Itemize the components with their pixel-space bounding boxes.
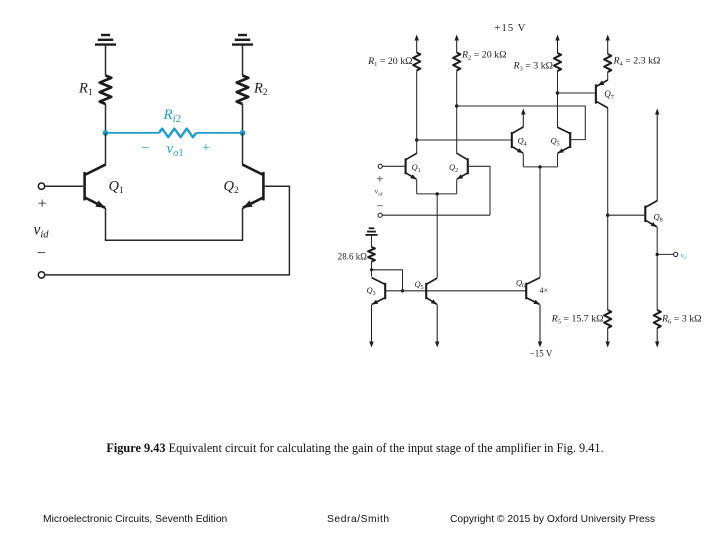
tail wire down to Q5b collector: [436, 194, 438, 278]
wire R3 down to Q5 collector: [557, 71, 559, 128]
Q6 collector diagonal: [526, 278, 540, 285]
svg-text:+15 V: +15 V: [495, 23, 527, 34]
Q4 collector arrow to +15V: [522, 114, 524, 128]
wire Q4 emitter to tail node: [523, 166, 540, 168]
wire 28.6k to Q3 collector: [371, 262, 373, 277]
node: Q7-collector/Q8-base junction dot: [606, 214, 609, 217]
Q5b emitter diagonal with arrow: [426, 298, 437, 305]
svg-text:Q8: Q8: [654, 212, 663, 224]
transistor Q5 base bar: [569, 132, 571, 148]
Q8 collector arrow to +15V: [656, 114, 658, 201]
node: R3/Q7-base junction dot: [556, 91, 559, 94]
svg-text:vid: vid: [375, 187, 383, 198]
wire riser to minus terminal (right): [382, 214, 490, 216]
wire R1 to node A: [105, 104, 107, 133]
svg-text:Q5: Q5: [415, 279, 424, 291]
resistor R4 = 2.3 k: [604, 54, 611, 72]
svg-text:R6 = 3 kΩ: R6 = 3 kΩ: [661, 314, 702, 326]
supply arrow above R1 (right): [416, 40, 418, 53]
riser wire down to bottom return: [288, 186, 290, 275]
Q1 collector wire: [105, 133, 107, 164]
ground (left figure, above R1): [101, 34, 110, 36]
wire Q5 emitter to tail node: [540, 166, 558, 168]
Q1 emitter wire down: [105, 208, 107, 240]
wire Q2 base to riser: [469, 165, 490, 167]
transistor Q5b (stage-1 tail source) base bar: [425, 283, 427, 299]
Q3 emitter diagonal with arrow: [372, 298, 385, 305]
svg-text:R3 = 3 kΩ: R3 = 3 kΩ: [513, 61, 554, 73]
Q5 emitter diagonal with arrow: [558, 147, 571, 154]
svg-text:R2 = 20 kΩ: R2 = 20 kΩ: [461, 50, 506, 62]
wire joining Q1 and Q2 emitters: [105, 239, 243, 241]
Q1 collector diagonal: [85, 164, 106, 175]
Q1 (right) collector diagonal: [406, 153, 417, 160]
Q7 emitter diagonal with inward arrow (pnp): [596, 80, 608, 87]
wire R2 down to Q2 collector: [456, 71, 458, 154]
bottom return wire to terminal: [45, 274, 290, 276]
node B (cyan junction dot): [240, 130, 246, 136]
Q2 emitter diagonal with arrow: [243, 197, 264, 207]
svg-text:R5 = 15.7 kΩ: R5 = 15.7 kΩ: [551, 314, 604, 326]
input terminal - (right, open circle): [378, 213, 382, 217]
svg-text:R1 = 20 kΩ: R1 = 20 kΩ: [367, 56, 412, 68]
footer center: authors: [327, 514, 390, 525]
svg-text:Ri2: Ri2: [163, 107, 182, 125]
Q7 collector wire down to R5: [607, 108, 609, 310]
transistor Q2 (left figure) base bar: [262, 172, 265, 200]
arrow to -15V below R5: [607, 328, 609, 343]
resistor Ri2 (cyan): [159, 129, 196, 138]
wire Q1-collector node to Q4 base: [417, 139, 511, 141]
wire R4 down to Q7 emitter: [607, 72, 609, 80]
footer left: book title: [43, 514, 227, 525]
Q8 collector diagonal: [645, 201, 657, 208]
Q5 emitter wire down: [557, 153, 559, 167]
Q3 collector diagonal: [372, 278, 386, 285]
node: output junction dot: [656, 253, 659, 256]
wire Ri2 to node B (cyan): [196, 132, 243, 134]
svg-text:vo: vo: [681, 251, 687, 262]
svg-text:Q4: Q4: [518, 136, 527, 148]
svg-text:−15 V: −15 V: [530, 349, 553, 359]
Q5 collector diagonal: [557, 127, 570, 133]
diode-connection wire (Q3 collector to base rail): [372, 270, 403, 291]
wire R2 to node B: [242, 104, 244, 133]
resistor R1 = 20 k (right): [413, 53, 420, 71]
transistor Q7 (pnp) base bar: [595, 84, 597, 103]
svg-text:Q3: Q3: [367, 285, 376, 297]
supply arrow above R3: [557, 40, 559, 54]
svg-text:Q5: Q5: [551, 136, 560, 148]
tail wire down to Q6 collector: [539, 167, 541, 278]
mirror base rail wire: [386, 290, 526, 292]
svg-text:vo1: vo1: [167, 141, 184, 159]
wire ground to R1: [105, 45, 107, 76]
Q1 (right) emitter wire down: [416, 179, 418, 194]
Q4 emitter wire down: [522, 153, 524, 167]
arrow to -15V below Q6 emitter: [539, 305, 541, 343]
input terminal + (right, open circle): [378, 164, 382, 168]
node: emitter tail junction dot: [436, 192, 439, 195]
transistor Q4 base bar: [511, 132, 513, 148]
Q7 collector diagonal: [596, 101, 608, 108]
resistor R3 = 3 k: [554, 53, 561, 71]
wire Q2 base to right riser: [265, 185, 290, 187]
input terminal (bottom, open circle): [38, 272, 44, 278]
Q2 emitter wire down: [242, 208, 244, 240]
node: R1/Q4-base junction dot: [415, 138, 418, 141]
output terminal vo (open circle): [674, 252, 678, 256]
Q4 collector diagonal: [512, 127, 524, 134]
Q6 emitter diagonal with arrow: [526, 298, 540, 305]
wire joining right Q1/Q2 emitters: [417, 193, 457, 195]
wire Q7 collector to Q8 base: [608, 214, 645, 216]
transistor Q8 base bar: [644, 206, 646, 222]
transistor Q6 (4x, stage-2 tail source) base bar: [525, 283, 527, 299]
wire Q2-collector node to Q5 base (around top): [457, 106, 586, 140]
arrow to -15V below Q3 emitter: [371, 305, 373, 343]
supply arrow above R4: [607, 40, 609, 55]
Q2 (right) emitter diagonal with arrow: [457, 173, 468, 179]
Q5b collector diagonal: [426, 278, 437, 284]
transistor Q3 (diode-connected) base bar: [384, 283, 386, 299]
figure caption: [0, 441, 715, 456]
wire output node to vo terminal: [657, 253, 674, 255]
svg-text:28.6 kΩ: 28.6 kΩ: [338, 252, 368, 262]
Q1 (right) emitter diagonal with arrow: [406, 173, 417, 179]
supply arrow above R2 (right): [456, 40, 458, 53]
wire R3 node to Q7 base: [558, 92, 595, 94]
svg-text:vid: vid: [34, 222, 50, 241]
transistor Q1 (left figure) base bar: [83, 172, 86, 200]
svg-text:R4 = 2.3 kΩ: R4 = 2.3 kΩ: [613, 56, 661, 68]
wire ground to R2: [242, 45, 244, 76]
wire terminal to Q1 base (right): [382, 165, 405, 167]
svg-text:−: −: [37, 245, 46, 262]
arrow to -15V below Q5b emitter: [436, 305, 438, 343]
resistor R2 = 20 k (right): [453, 53, 460, 71]
riser wire Q2 base down: [489, 166, 491, 215]
svg-text:R2: R2: [253, 81, 268, 99]
svg-text:4×: 4×: [540, 286, 549, 295]
svg-text:Q7: Q7: [604, 89, 614, 101]
ground (left figure, above R2): [238, 34, 247, 36]
svg-text:−: −: [142, 141, 150, 156]
svg-text:Q2: Q2: [449, 162, 458, 174]
svg-text:Q1: Q1: [412, 162, 421, 174]
input terminal (top, open circle): [38, 183, 44, 189]
svg-text:+: +: [202, 141, 210, 156]
node A (cyan junction dot): [103, 130, 109, 136]
wire terminal to Q1 base: [45, 185, 84, 187]
Q2 (right) collector diagonal: [457, 153, 468, 160]
arrow to -15V below R6: [656, 328, 658, 343]
node: R2/Q5-base junction dot: [455, 104, 458, 107]
node: mirror base junction dot: [401, 289, 404, 292]
Q2 collector wire: [242, 133, 244, 164]
svg-text:Q1: Q1: [109, 179, 124, 197]
Q8 emitter diagonal with arrow: [645, 220, 657, 227]
wire node A to Ri2 (cyan): [106, 132, 160, 134]
svg-text:−: −: [376, 199, 383, 213]
ground (bias reference): [369, 227, 375, 229]
svg-text:R1: R1: [78, 81, 93, 99]
svg-text:Q2: Q2: [224, 179, 239, 197]
wire ground to 28.6k resistor: [371, 235, 373, 247]
resistor R5 = 15.7 k: [604, 310, 611, 328]
svg-text:+: +: [376, 172, 383, 186]
svg-text:+: +: [38, 195, 47, 212]
transistor Q2 (right input pair) base bar: [467, 158, 469, 174]
wire R1 down to Q1 collector: [416, 71, 418, 154]
resistor R1 (left figure): [100, 76, 112, 105]
node: 28.6k/Q3-collector junction dot: [370, 268, 373, 271]
resistor R2 (left figure): [237, 76, 249, 105]
svg-text:Q6: Q6: [516, 278, 525, 290]
resistor R6 = 3 k: [654, 310, 661, 328]
resistor 28.6 k-ohm: [368, 247, 375, 262]
Q1 emitter diagonal with arrow: [85, 197, 106, 207]
transistor Q1 (right input pair) base bar: [405, 158, 407, 174]
node: second-stage tail junction dot: [538, 165, 541, 168]
Q4 emitter diagonal with arrow: [512, 147, 523, 154]
Q2 collector diagonal: [242, 164, 263, 175]
Q2 (right) emitter wire down: [456, 179, 458, 194]
footer right: copyright: [450, 514, 655, 525]
Q8 emitter wire down to R6: [656, 227, 658, 310]
